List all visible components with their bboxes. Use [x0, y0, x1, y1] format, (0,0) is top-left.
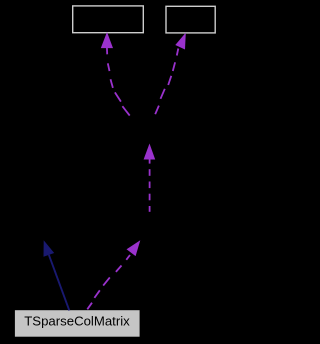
dashed purple arrow from TSparseColMatrix up-right: [87, 240, 140, 309]
class box top-right (empty): [166, 6, 215, 33]
svg-text:TSparseColMatrix: TSparseColMatrix: [24, 314, 130, 329]
class box top-left (empty): [73, 6, 144, 33]
blue inheritance arrow (solid): [44, 240, 70, 310]
dashed purple arrow to top-right box: [155, 33, 186, 115]
dashed purple curved arrow to top-left box: [101, 32, 130, 116]
dashed purple vertical arrow (middle): [144, 144, 156, 212]
node TSparseColMatrix: [15, 310, 140, 337]
